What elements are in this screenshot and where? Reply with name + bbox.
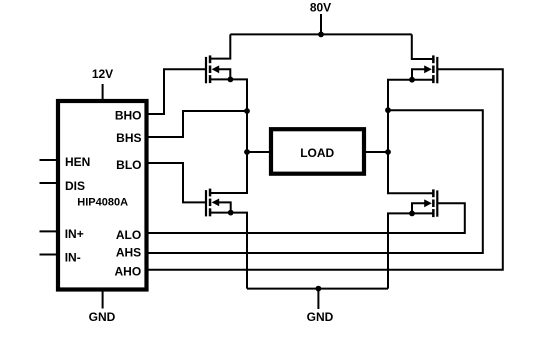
svg-text:ALO: ALO — [116, 228, 141, 242]
node LOAD left junction dot — [244, 149, 250, 155]
node B high-side source junction dot (BHS) — [244, 108, 250, 114]
wire ALO pin to gate of Q4 — [147, 203, 465, 233]
wire bottom ground rail — [247, 288, 388, 290]
node 80V rail junction dot — [318, 32, 324, 38]
wire 12V supply stub to pin VDD — [102, 84, 104, 99]
svg-text:AHS: AHS — [116, 246, 141, 260]
wire pin IN- stub — [40, 254, 57, 256]
transistor Q3 bottom-left NMOS — [206, 189, 234, 217]
transistor Q1 top-left NMOS — [206, 55, 233, 83]
wire pin HEN stub — [40, 159, 57, 161]
wire BHS pin to node B (source of Q1) — [147, 111, 247, 137]
svg-text:AHO: AHO — [115, 264, 142, 278]
svg-text:BHS: BHS — [116, 131, 141, 145]
wire source of Q1 down left bus to drain of Q3 — [210, 79, 247, 193]
load LOAD box — [271, 129, 364, 174]
svg-text:GND: GND — [89, 310, 116, 324]
node A high-side source junction dot (AHS) — [385, 107, 391, 113]
transistor Q2 top-right NMOS — [409, 55, 437, 83]
wire drain of Q2 to 80V rail — [412, 34, 434, 59]
svg-text:BLO: BLO — [116, 158, 141, 172]
wire source of Q4 down to ground rail — [388, 213, 433, 288]
wire pin DIS stub — [40, 182, 57, 184]
node source junction dot Q3 — [228, 210, 234, 216]
svg-text:HEN: HEN — [65, 155, 90, 169]
wire BHO pin to gate of Q1 — [147, 69, 206, 114]
wire pin IN+ stub — [40, 230, 57, 232]
node source junction dot Q1 — [228, 77, 234, 83]
wire AHO pin to gate of Q2 — [147, 69, 503, 269]
wire 80V top rail — [230, 33, 411, 35]
svg-text:BHO: BHO — [115, 108, 142, 122]
svg-text:DIS: DIS — [65, 179, 85, 193]
wire ground stub at bottom — [317, 289, 319, 309]
wire LOAD left lead — [247, 151, 269, 153]
node LOAD right junction dot — [385, 149, 391, 155]
IC U1 HIP4080A body — [58, 101, 147, 290]
node source junction dot Q4 — [409, 211, 415, 217]
wire drain of Q1 to 80V rail — [210, 34, 230, 58]
svg-text:IN-: IN- — [65, 251, 81, 265]
wire BLO pin to gate of Q3 — [147, 163, 206, 202]
svg-text:GND: GND — [307, 310, 334, 324]
wire LOAD right lead — [366, 151, 388, 153]
wire 80V supply stub — [320, 14, 322, 34]
wire source of Q3 down to ground rail — [210, 213, 247, 289]
node ground junction dot — [316, 286, 322, 292]
transistor Q4 bottom-right NMOS — [409, 189, 437, 217]
wire source of Q2 down right bus to drain of Q4 — [388, 80, 433, 194]
svg-text:12V: 12V — [92, 67, 113, 81]
svg-text:80V: 80V — [310, 1, 331, 15]
svg-text:IN+: IN+ — [65, 227, 84, 241]
wire AHS pin to node A (source of Q2) — [147, 110, 483, 253]
svg-text:HIP4080A: HIP4080A — [77, 196, 128, 208]
svg-text:LOAD: LOAD — [300, 146, 334, 160]
node source junction dot Q2 — [409, 77, 415, 83]
wire IC ground stub — [102, 292, 104, 309]
